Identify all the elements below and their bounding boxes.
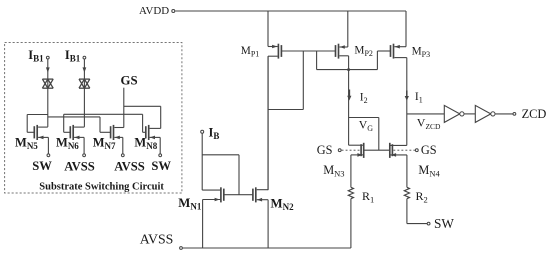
svg-text:AVSS: AVSS bbox=[114, 159, 145, 173]
svg-text:SW: SW bbox=[32, 159, 52, 173]
svg-text:ZCD: ZCD bbox=[522, 107, 547, 121]
svg-text:SW: SW bbox=[151, 159, 171, 173]
svg-text:AVSS: AVSS bbox=[140, 232, 174, 247]
svg-text:AVSS: AVSS bbox=[64, 159, 95, 173]
svg-text:GS: GS bbox=[121, 73, 138, 87]
svg-text:SW: SW bbox=[434, 216, 454, 231]
svg-text:AVDD: AVDD bbox=[139, 5, 169, 17]
svg-text:GS: GS bbox=[317, 143, 333, 157]
svg-text:Substrate Switching Circuit: Substrate Switching Circuit bbox=[39, 182, 164, 193]
svg-text:GS: GS bbox=[421, 143, 437, 157]
